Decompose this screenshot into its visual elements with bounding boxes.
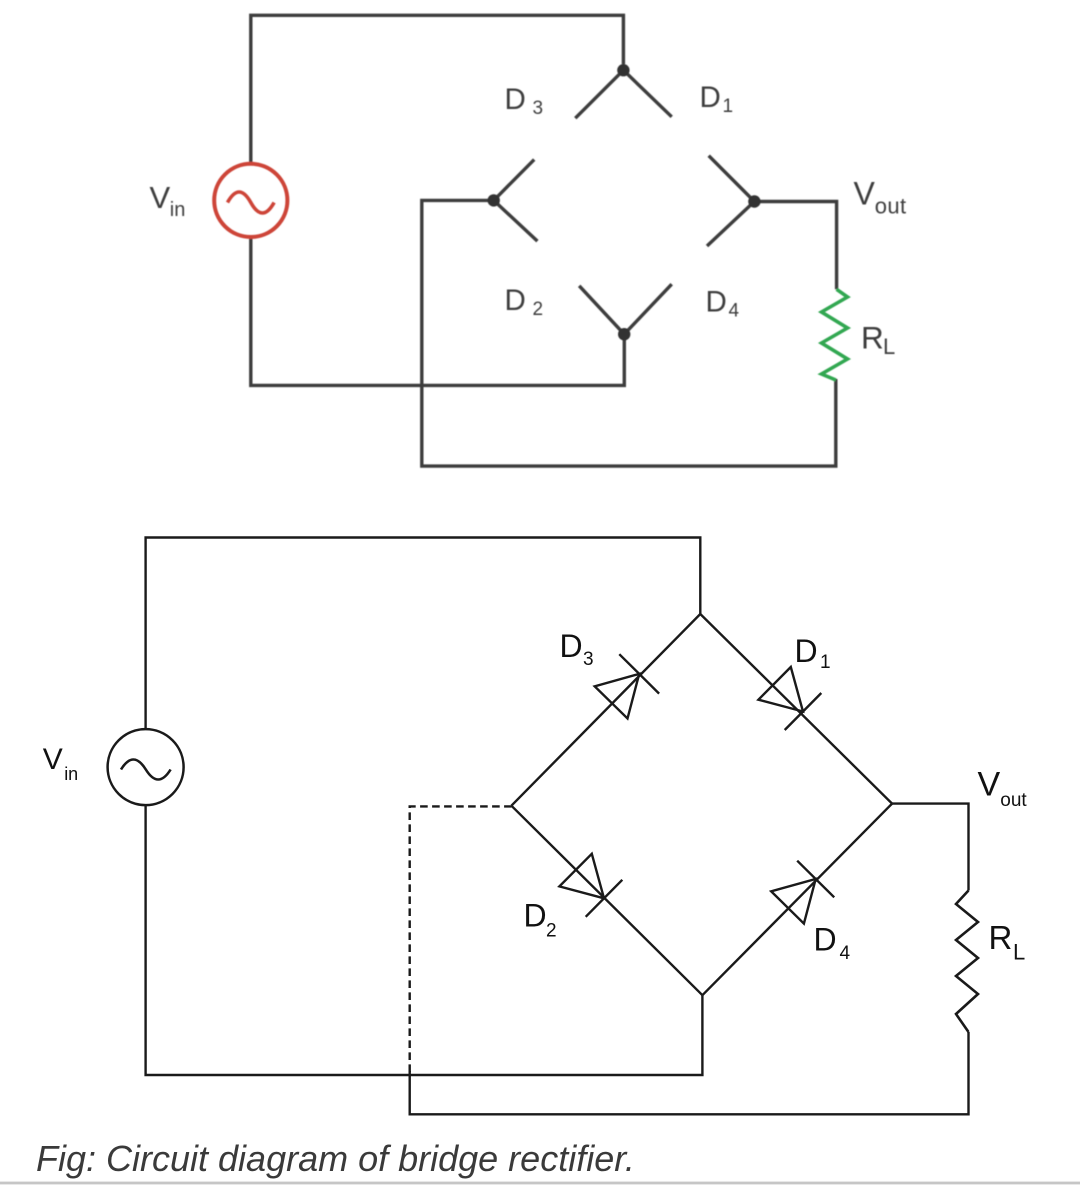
svg-text:R: R	[861, 319, 884, 355]
node left	[488, 194, 500, 206]
svg-text:D: D	[795, 633, 818, 669]
svg-text:D: D	[560, 628, 583, 664]
svg-text:3: 3	[583, 649, 594, 670]
wire Vin bottom loop	[146, 806, 703, 1076]
svg-text:in: in	[64, 764, 78, 784]
svg-text:D: D	[505, 284, 526, 317]
svg-text:V: V	[43, 743, 63, 776]
svg-text:4: 4	[729, 301, 740, 322]
svg-text:D: D	[706, 286, 727, 319]
svg-text:2: 2	[533, 299, 544, 320]
wire bridge arm D1	[700, 614, 892, 804]
svg-text:Fig: Circuit diagram of bridge: Fig: Circuit diagram of bridge rectifier…	[36, 1138, 635, 1179]
svg-text:1: 1	[820, 652, 831, 673]
resistor RL (green zigzag)	[822, 289, 848, 380]
svg-text:L: L	[1013, 940, 1025, 965]
diode D3 stub upper	[575, 70, 623, 118]
wire RL bottom return	[410, 1032, 969, 1114]
diode D1	[758, 667, 821, 730]
svg-text:2: 2	[546, 921, 557, 942]
resistor RL (bottom zigzag)	[956, 891, 978, 1033]
node top	[617, 64, 629, 76]
svg-text:out: out	[875, 194, 907, 219]
diode D1 stub lower	[709, 156, 755, 202]
AC source Vin (red)	[214, 164, 287, 237]
svg-text:L: L	[883, 334, 895, 359]
node bottom	[618, 328, 630, 340]
svg-text:V: V	[854, 176, 876, 212]
svg-text:1: 1	[723, 96, 734, 117]
svg-text:D: D	[524, 897, 547, 933]
wire bridge arm D4	[702, 804, 892, 996]
wire bridge arm D2	[511, 806, 702, 996]
wire bridge arm D3	[511, 614, 700, 806]
svg-text:D: D	[505, 83, 526, 116]
svg-text:R: R	[989, 919, 1013, 956]
AC source Vin (bottom)	[108, 729, 184, 805]
diode D3	[595, 654, 659, 718]
node right	[748, 195, 760, 207]
wire Vin top to top node	[251, 15, 624, 162]
footer rule	[0, 1182, 1080, 1185]
svg-text:D: D	[814, 922, 837, 958]
svg-text:V: V	[150, 180, 171, 215]
wire left node to RL bottom	[422, 200, 836, 466]
wire Vin top loop	[146, 538, 701, 730]
diode D4 stub upper	[707, 201, 755, 246]
diode D1 stub upper	[623, 70, 671, 117]
svg-text:V: V	[978, 766, 1001, 804]
svg-text:3: 3	[533, 98, 544, 119]
diode D2	[559, 854, 622, 917]
wire Vin bottom to bottom node	[251, 239, 625, 386]
svg-text:D: D	[700, 81, 721, 114]
diode D2 stub upper	[494, 200, 538, 241]
svg-text:4: 4	[840, 943, 851, 964]
wire dashed hidden return	[410, 806, 512, 1072]
diode D4	[771, 861, 834, 924]
wire right node to RL top	[754, 202, 836, 290]
wire right node to RL	[892, 804, 968, 891]
svg-text:out: out	[1000, 790, 1027, 811]
diode D2 stub lower	[579, 286, 624, 334]
diode D3 stub lower	[494, 160, 535, 201]
svg-text:in: in	[170, 199, 186, 221]
diode D4 stub lower	[624, 284, 672, 334]
